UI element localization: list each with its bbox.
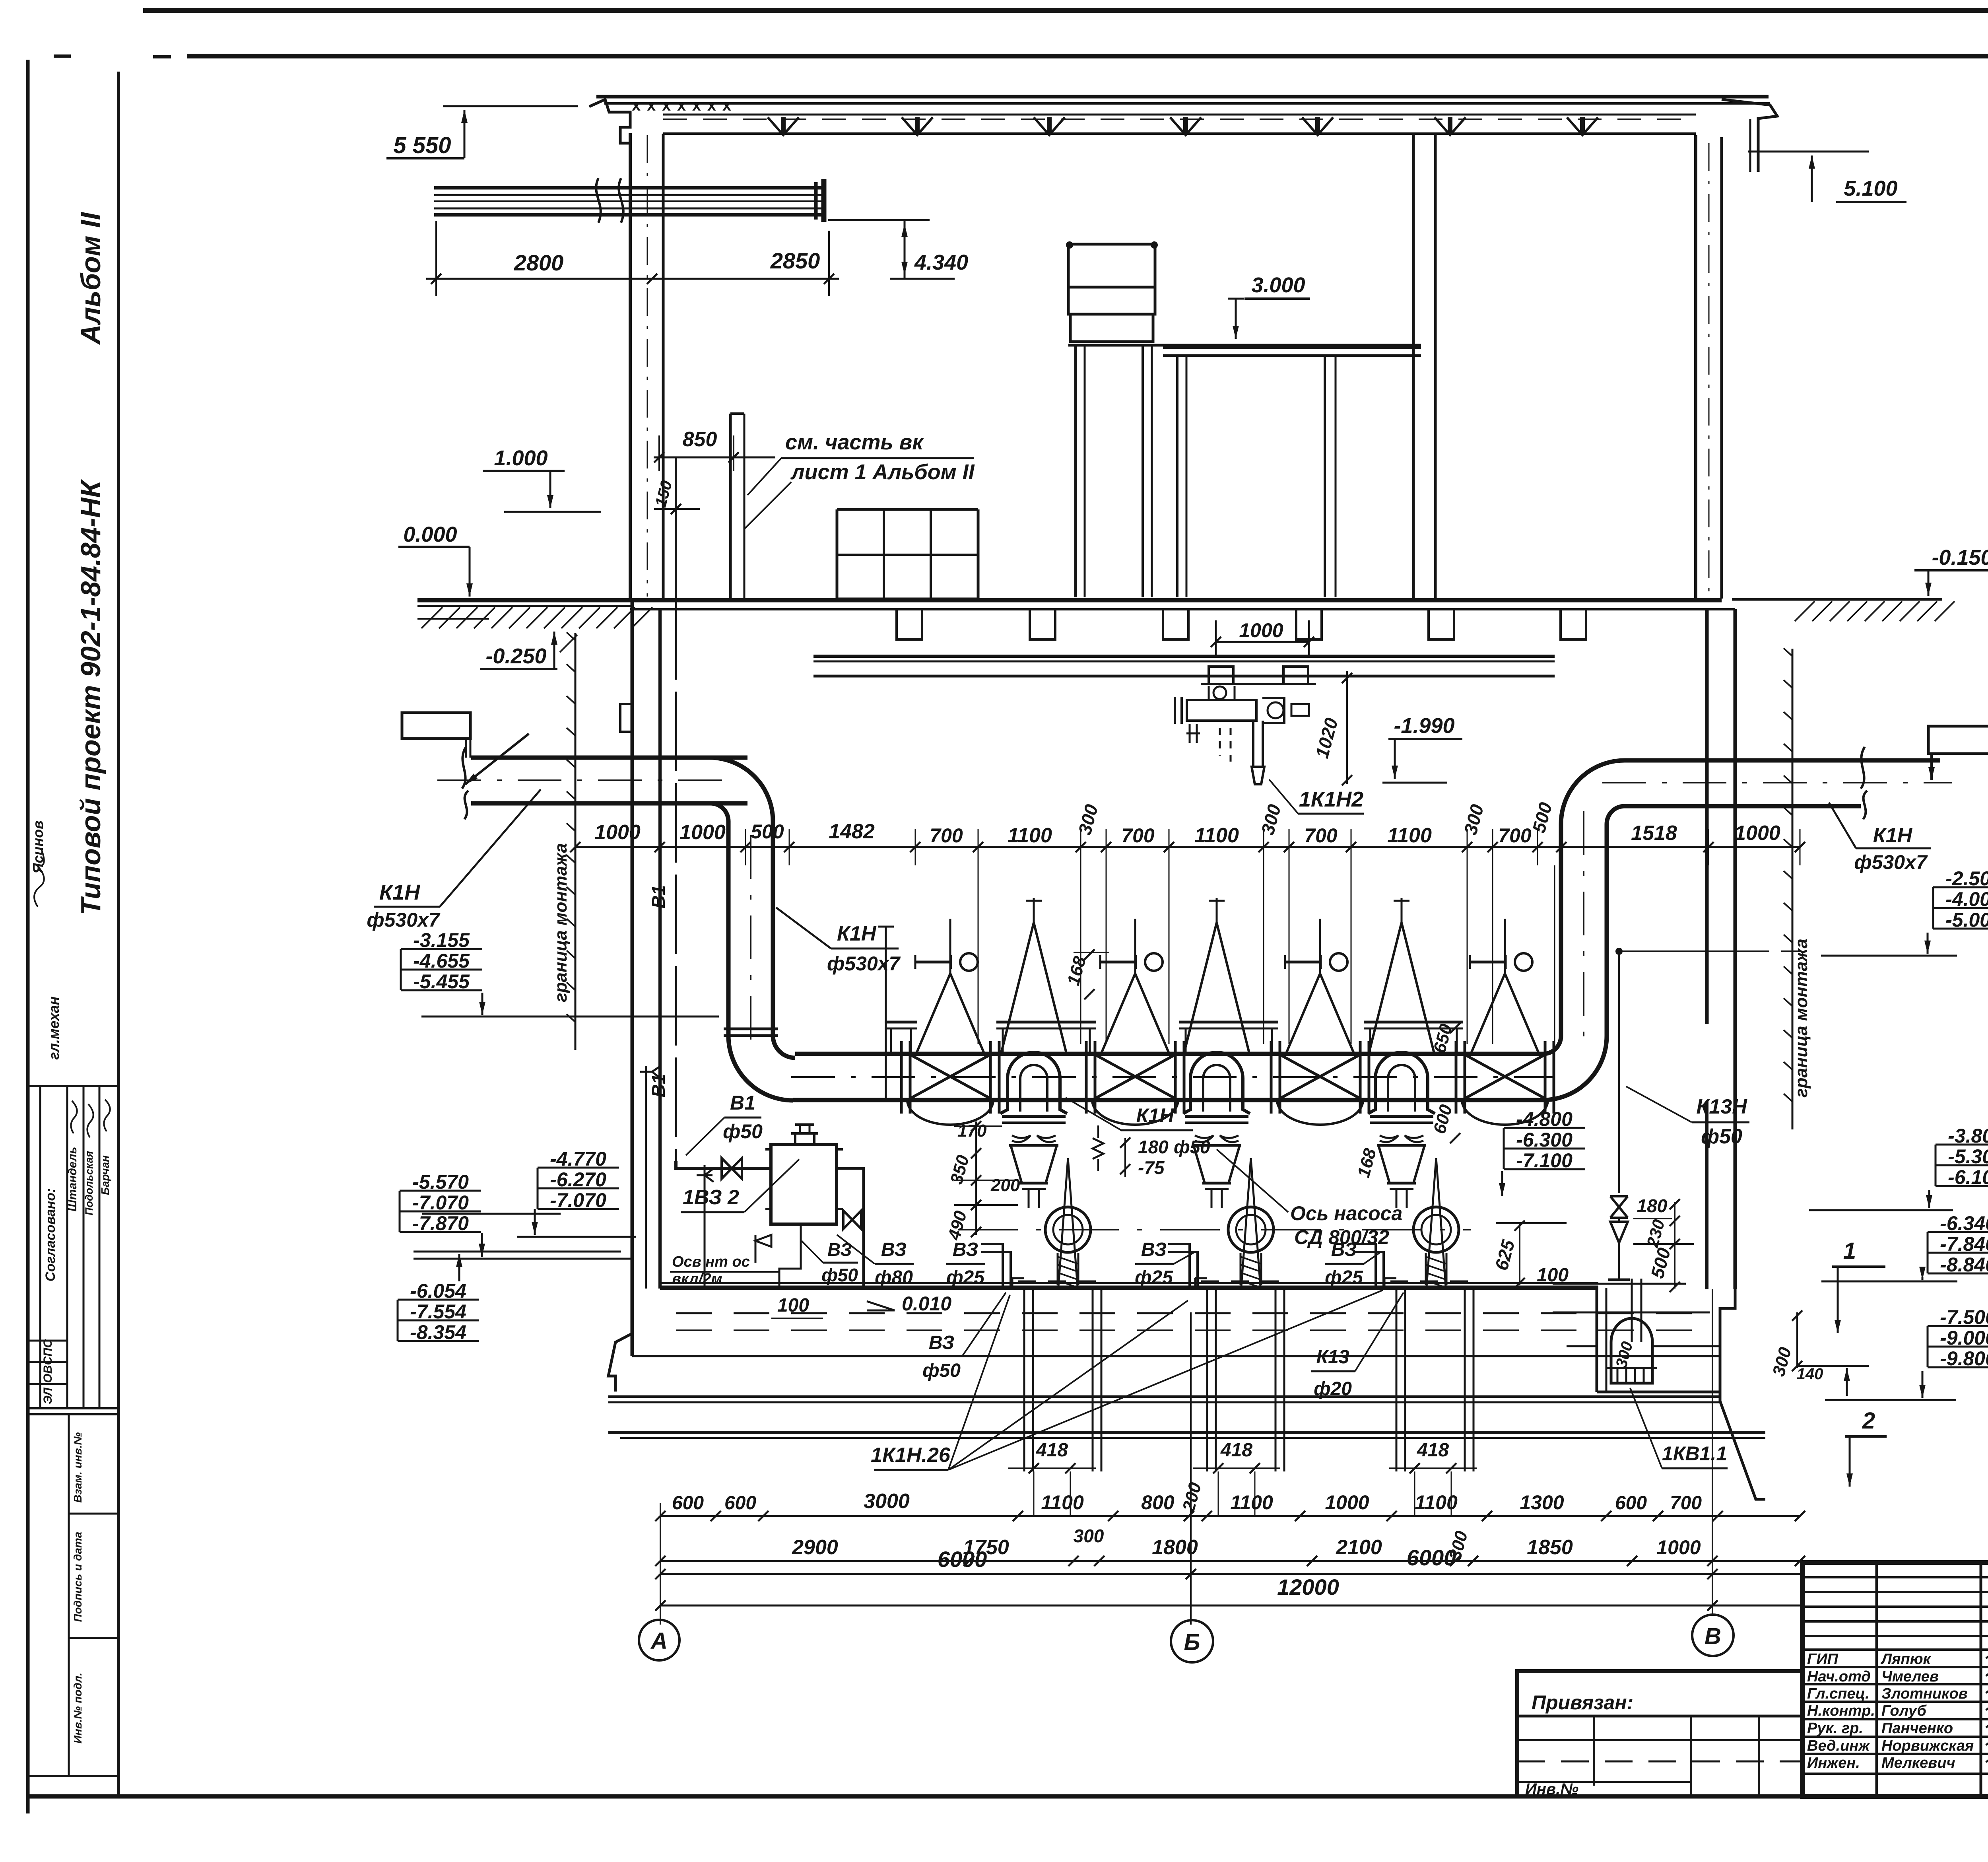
K13N valves <box>1610 1196 1628 1218</box>
svg-text:ф50: ф50 <box>1701 1125 1742 1148</box>
svg-text:1100: 1100 <box>1230 1491 1273 1514</box>
svg-text:300: 300 <box>1769 1345 1795 1378</box>
svg-text:СПС: СПС <box>41 1339 54 1365</box>
svg-text:граница монтажа: граница монтажа <box>1792 939 1811 1098</box>
svg-text:300: 300 <box>1257 802 1285 837</box>
svg-text:600: 600 <box>672 1493 704 1514</box>
svg-text:490: 490 <box>944 1209 971 1242</box>
axis circle A <box>639 1620 679 1660</box>
svg-text:1000: 1000 <box>679 821 726 844</box>
pump motor circle 1 (SD 800/32) <box>1045 1207 1091 1252</box>
tank right wall <box>1705 609 1709 1024</box>
svg-text:-0.250: -0.250 <box>485 644 546 668</box>
bottom slab top line <box>632 1355 1720 1357</box>
svg-text:Инжен.: Инжен. <box>1807 1755 1860 1771</box>
svg-text:150: 150 <box>652 479 676 509</box>
svg-text:300: 300 <box>1074 802 1102 837</box>
svg-text:Чмелев: Чмелев <box>1881 1668 1939 1685</box>
frame bottom border <box>28 1794 1988 1799</box>
pipe K13N top tick <box>1615 948 1623 955</box>
sidebar double divider <box>28 1407 118 1409</box>
svg-text:1К1Н.26: 1К1Н.26 <box>871 1444 951 1467</box>
svg-text:5.100: 5.100 <box>1844 177 1897 200</box>
svg-text:ф25: ф25 <box>1135 1267 1173 1288</box>
frame left border <box>26 60 30 1813</box>
tank left wall footing <box>608 1333 632 1392</box>
svg-text:6000: 6000 <box>1407 1545 1456 1570</box>
svg-text:Инв.№ подл.: Инв.№ подл. <box>72 1673 84 1743</box>
svg-text:1100: 1100 <box>1008 824 1052 847</box>
svg-text:Осв нт ос: Осв нт ос <box>672 1254 750 1270</box>
roof bottom chord <box>663 132 1696 135</box>
svg-text:ВЗ: ВЗ <box>881 1239 907 1260</box>
svg-text:Панченко: Панченко <box>1881 1720 1953 1737</box>
svg-text:2: 2 <box>1862 1408 1875 1434</box>
svg-text:x: x <box>662 97 671 114</box>
svg-text:2100: 2100 <box>1336 1536 1382 1559</box>
platform legs <box>1176 356 1178 597</box>
svg-text:Взам. инв.№: Взам. инв.№ <box>72 1432 84 1502</box>
dimension chain row 2 <box>660 1560 1800 1562</box>
crane beam I-section <box>434 186 823 190</box>
svg-text:ГИП: ГИП <box>1807 1651 1839 1668</box>
left wall sleeve block <box>402 713 470 739</box>
level sensor post <box>885 927 887 1100</box>
svg-text:600: 600 <box>1615 1493 1647 1514</box>
pipe K1H right cut break <box>1861 747 1867 819</box>
svg-text:1020: 1020 <box>1311 715 1342 760</box>
title block signature scribbles <box>1986 1655 1988 1663</box>
right wall axis dash <box>1708 143 1710 597</box>
svg-text:-75: -75 <box>1138 1157 1165 1178</box>
svg-text:Гл.спец.: Гл.спец. <box>1807 1685 1870 1702</box>
svg-text:2850: 2850 <box>770 248 820 273</box>
hoist hanging pipe <box>1252 721 1254 767</box>
svg-text:418: 418 <box>1417 1440 1449 1461</box>
svg-text:1300: 1300 <box>1520 1491 1564 1514</box>
sump pump GNOM body <box>1611 1318 1652 1383</box>
svg-text:3000: 3000 <box>864 1490 910 1513</box>
small cock symbol <box>697 1168 714 1182</box>
svg-text:4.340: 4.340 <box>914 251 968 274</box>
svg-text:Согласовано:: Согласовано: <box>43 1188 58 1282</box>
sidebar signatures table top line <box>28 1085 118 1087</box>
pipe K1H outlet right horizontal <box>1625 758 1940 763</box>
svg-text:100: 100 <box>1537 1265 1569 1286</box>
pump axis dash-dot line <box>958 1229 1471 1230</box>
svg-text:800: 800 <box>1141 1491 1175 1514</box>
roof cornice right <box>1722 99 1777 172</box>
frame top border <box>54 54 71 58</box>
pipe K1H left riser <box>726 851 731 1036</box>
svg-text:Привязан:: Привязан: <box>1532 1691 1633 1714</box>
sidebar signatures table columns <box>39 1086 41 1408</box>
svg-text:x: x <box>707 97 716 114</box>
svg-text:1100: 1100 <box>1387 824 1432 847</box>
floor slab bottom line <box>630 608 1735 610</box>
svg-text:418: 418 <box>1220 1440 1252 1461</box>
ground line right <box>1732 598 1942 601</box>
svg-text:К1Н: К1Н <box>1136 1104 1175 1127</box>
svg-text:Злотников: Злотников <box>1881 1685 1968 1702</box>
svg-text:вкл/2м: вкл/2м <box>672 1271 722 1287</box>
svg-text:ф80: ф80 <box>875 1267 913 1288</box>
svg-text:625: 625 <box>1491 1237 1518 1273</box>
svg-text:А: А <box>650 1628 668 1654</box>
svg-text:1КВ1.1: 1КВ1.1 <box>1662 1442 1727 1465</box>
svg-text:ф50: ф50 <box>922 1360 961 1381</box>
svg-text:600: 600 <box>724 1493 756 1514</box>
svg-text:x: x <box>647 97 656 114</box>
svg-text:1К1Н2: 1К1Н2 <box>1299 787 1363 811</box>
svg-text:200: 200 <box>990 1176 1020 1195</box>
svg-text:1000: 1000 <box>1325 1491 1369 1514</box>
roof ribs <box>768 117 799 134</box>
suction manifold pipe <box>795 1052 1543 1056</box>
svg-text:ф20: ф20 <box>1314 1378 1352 1399</box>
svg-text:x: x <box>632 97 641 114</box>
sump pit bottom <box>1597 1391 1720 1394</box>
svg-text:2900: 2900 <box>792 1536 838 1559</box>
svg-text:В1: В1 <box>648 885 669 909</box>
svg-text:600: 600 <box>1430 1102 1456 1136</box>
pump foundation walls 1 <box>1023 1290 1025 1471</box>
left wall axis dash <box>647 135 648 597</box>
small flag symbol <box>755 1235 771 1263</box>
floor screed dashed line <box>676 1312 1706 1314</box>
montage boundary right <box>1792 649 1794 1129</box>
svg-text:x: x <box>677 97 686 114</box>
valve on outlet <box>843 1211 861 1229</box>
pipe K1H left riser flange <box>724 1028 778 1030</box>
pipe K1H left arrow flow <box>465 734 529 784</box>
dimension chain row 1 <box>660 1515 1800 1517</box>
sidebar signature scribbles <box>71 1101 77 1133</box>
svg-text:В1: В1 <box>730 1092 755 1114</box>
svg-text:200: 200 <box>1179 1480 1206 1514</box>
axis column B line <box>1190 1312 1192 1625</box>
stacked tanks left <box>1068 244 1155 287</box>
svg-text:1000: 1000 <box>1656 1536 1701 1559</box>
drain pipes extension lines <box>1033 1471 1035 1516</box>
svg-text:180: 180 <box>1138 1137 1169 1157</box>
dimension line main row <box>575 846 1800 848</box>
svg-text:0.010: 0.010 <box>902 1293 951 1315</box>
svg-text:x: x <box>722 97 731 114</box>
svg-text:1000: 1000 <box>1734 822 1780 845</box>
svg-text:Подольская: Подольская <box>83 1151 95 1215</box>
svg-text:ЭЛ: ЭЛ <box>41 1387 54 1404</box>
svg-text:1850: 1850 <box>1527 1536 1573 1559</box>
svg-text:К1Н: К1Н <box>1873 824 1913 847</box>
pump drop funnel 1 <box>1002 1115 1066 1118</box>
svg-text:12000: 12000 <box>1277 1574 1339 1600</box>
sidebar right border <box>117 72 120 1796</box>
hoist chain dashes <box>1230 728 1232 762</box>
pit level arrow up <box>1846 1368 1848 1396</box>
note leader lines <box>747 458 781 495</box>
pipe K1H right riser dash axis <box>1583 811 1584 1050</box>
tank right wall lower <box>1705 1102 1708 1289</box>
sidebar lower cells <box>68 1414 70 1776</box>
tank 1V32 lugs <box>765 1148 771 1151</box>
svg-text:180: 180 <box>1637 1195 1668 1216</box>
dimension 625 <box>1519 1223 1520 1285</box>
service rail bars above manifold <box>885 1021 917 1024</box>
tank left wall corbel <box>620 704 632 732</box>
svg-text:3.000: 3.000 <box>1251 273 1305 297</box>
svg-text:Вед.инж: Вед.инж <box>1807 1738 1870 1754</box>
svg-text:ф50: ф50 <box>723 1120 763 1143</box>
svg-text:ф50: ф50 <box>1174 1137 1210 1157</box>
svg-text:1100: 1100 <box>1194 824 1239 847</box>
tank left wall <box>631 600 634 1356</box>
svg-text:Б: Б <box>1184 1629 1200 1655</box>
dimension chain row 4 (12000) <box>660 1605 1800 1607</box>
hoist small parts <box>1186 724 1200 743</box>
svg-text:ОВ: ОВ <box>41 1365 54 1383</box>
tank outlet pipe right <box>837 1168 864 1289</box>
pipe B1 elbow to tank <box>676 1161 771 1168</box>
level line left lower <box>422 1213 561 1215</box>
svg-text:-0.150: -0.150 <box>1932 546 1988 569</box>
svg-text:1518: 1518 <box>1631 822 1677 845</box>
svg-text:К1Н: К1Н <box>379 880 420 904</box>
svg-text:Альбом II: Альбом II <box>75 212 106 345</box>
svg-text:ф530х7: ф530х7 <box>1854 851 1928 873</box>
svg-text:Барчан: Барчан <box>99 1155 111 1195</box>
hoisted valve 1K1H2 assembly <box>1187 700 1256 721</box>
V3 f25 drain pipes <box>981 1244 1003 1290</box>
pipe K1H left down elbow <box>709 758 773 851</box>
svg-text:1000: 1000 <box>594 821 641 844</box>
crane beam break symbol <box>596 178 601 223</box>
axis column V line <box>1712 1289 1713 1615</box>
roof panel lines <box>663 114 1696 116</box>
svg-text:К1Н: К1Н <box>837 922 877 945</box>
dimension chain row 3 (6000) <box>660 1573 1800 1575</box>
title block staff rows <box>1802 1648 1988 1651</box>
sump guide line <box>1553 1312 1710 1314</box>
svg-text:Рук. гр.: Рук. гр. <box>1807 1720 1863 1737</box>
svg-text:418: 418 <box>1036 1440 1068 1461</box>
svg-text:Штандель: Штандель <box>66 1147 79 1212</box>
tank drain small pipe <box>779 1224 801 1289</box>
svg-text:ф530х7: ф530х7 <box>367 909 440 931</box>
pump hall floor line <box>660 1286 1598 1290</box>
svg-text:300: 300 <box>1613 1340 1637 1370</box>
axis circle V <box>1692 1615 1734 1656</box>
svg-text:700: 700 <box>1121 824 1155 847</box>
svg-text:Голуб: Голуб <box>1881 1703 1927 1719</box>
privyazan grid <box>1517 1715 1802 1718</box>
slab downstand ribs <box>897 609 922 639</box>
svg-text:граница монтажа: граница монтажа <box>551 843 571 1002</box>
svg-text:Типовой проект 902-1-84.84-НК: Типовой проект 902-1-84.84-НК <box>75 479 106 915</box>
svg-text:Подпись и дата: Подпись и дата <box>72 1532 84 1622</box>
sidebar rows SPS/OV/EL <box>28 1340 67 1342</box>
tank 1V32 cap <box>791 1133 818 1145</box>
svg-text:ф25: ф25 <box>1325 1267 1363 1288</box>
svg-text:1000: 1000 <box>1239 619 1283 641</box>
svg-text:Ось насоса: Ось насоса <box>1290 1202 1402 1224</box>
svg-text:ф25: ф25 <box>946 1267 985 1288</box>
svg-text:700: 700 <box>1670 1493 1702 1514</box>
interior VK pipe <box>729 414 732 599</box>
pipe K1H right riser top elbow <box>1561 760 1625 824</box>
right wall sleeve block <box>1928 726 1988 754</box>
montage boundary left <box>575 633 577 1050</box>
svg-text:К13: К13 <box>1316 1347 1349 1368</box>
svg-text:ВЗ: ВЗ <box>953 1239 978 1260</box>
ground floor slab line <box>417 598 1722 603</box>
svg-text:В: В <box>1705 1623 1721 1649</box>
svg-text:850: 850 <box>683 428 717 451</box>
svg-text:1100: 1100 <box>1041 1491 1084 1514</box>
svg-text:168: 168 <box>1354 1146 1380 1180</box>
svg-text:300: 300 <box>1460 802 1487 837</box>
svg-text:1100: 1100 <box>1415 1491 1458 1514</box>
sump pit inner lines <box>1567 1345 1597 1347</box>
svg-text:700: 700 <box>1498 824 1532 847</box>
pipe K1H inlet left cut break <box>462 747 468 819</box>
roof cornice left <box>589 99 630 167</box>
svg-text:-1.990: -1.990 <box>1394 714 1454 738</box>
svg-text:700: 700 <box>930 824 963 847</box>
axis column A line <box>660 1503 661 1625</box>
svg-text:ВЗ: ВЗ <box>929 1332 954 1353</box>
svg-text:230: 230 <box>1643 1217 1668 1250</box>
pipe B1 riser <box>675 600 677 1161</box>
svg-text:700: 700 <box>1304 824 1338 847</box>
pipe K1H left bottom elbow <box>728 1036 795 1100</box>
title block outer frame <box>1802 1563 1988 1796</box>
privyazan box frame <box>1517 1671 1802 1796</box>
valve on B1 <box>722 1158 742 1179</box>
axis circle B <box>1171 1620 1213 1662</box>
pipe K1H right bottom elbow <box>1543 824 1607 1100</box>
svg-text:650: 650 <box>1430 1022 1456 1055</box>
svg-text:1: 1 <box>1843 1238 1856 1264</box>
slope mark 0.010 <box>867 1301 895 1310</box>
svg-text:Н.контр.: Н.контр. <box>1807 1703 1875 1719</box>
pump suction branch loop 1 <box>1000 1052 1067 1114</box>
pipe K1H inlet left horizontal <box>471 756 747 760</box>
tank legs <box>1074 345 1077 597</box>
left wall above ground <box>629 133 632 599</box>
sump pump discharge pipe <box>1631 1279 1633 1342</box>
svg-text:ф50: ф50 <box>821 1265 858 1285</box>
svg-text:К13Н: К13Н <box>1696 1095 1747 1118</box>
sump pit left wall <box>1596 1288 1598 1392</box>
title block vertical dividers <box>1875 1563 1878 1796</box>
B1 pipe above floor <box>675 458 677 600</box>
svg-text:1482: 1482 <box>829 820 875 843</box>
svg-text:см. часть вк: см. часть вк <box>785 430 924 454</box>
svg-text:0.000: 0.000 <box>403 523 457 546</box>
svg-text:Инв.№: Инв.№ <box>1525 1780 1578 1798</box>
left small stand pipe <box>704 1165 706 1289</box>
svg-text:Нач.отд: Нач.отд <box>1807 1668 1871 1685</box>
right wall above ground <box>1694 135 1697 599</box>
svg-text:2800: 2800 <box>514 250 564 275</box>
svg-text:В1: В1 <box>648 1074 669 1098</box>
pipe K13N f50 vertical <box>1618 951 1620 1193</box>
svg-text:гл.механ: гл.механ <box>46 996 62 1059</box>
svg-text:5 550: 5 550 <box>393 132 451 158</box>
monorail under slab <box>813 655 1555 658</box>
svg-text:300: 300 <box>1074 1526 1104 1546</box>
svg-text:140: 140 <box>1797 1365 1823 1383</box>
svg-text:1ВЗ 2: 1ВЗ 2 <box>683 1186 739 1209</box>
platform at 3.000 <box>1068 344 1421 347</box>
svg-text:1.000: 1.000 <box>494 446 547 470</box>
expansion joint symbol <box>1093 1138 1103 1159</box>
svg-text:Ляпюк: Ляпюк <box>1880 1651 1932 1668</box>
dimension extension verticals to manifold <box>978 865 979 1044</box>
svg-text:100: 100 <box>777 1295 809 1316</box>
svg-text:1800: 1800 <box>1152 1536 1198 1559</box>
bottom slab lines <box>608 1396 1720 1398</box>
manifold gate valve body 1 <box>907 1053 993 1100</box>
tank right wall footing incline <box>1720 1289 1765 1499</box>
svg-text:350: 350 <box>947 1153 973 1186</box>
svg-text:500: 500 <box>1646 1246 1674 1281</box>
svg-text:500: 500 <box>751 820 784 843</box>
svg-text:ВЗ: ВЗ <box>1141 1239 1167 1260</box>
hoist trolley <box>1209 667 1233 684</box>
svg-text:ф530х7: ф530х7 <box>827 952 901 975</box>
roof slab top chords <box>596 95 1769 99</box>
svg-text:6000: 6000 <box>938 1547 987 1572</box>
K13N flange at floor <box>1608 1279 1630 1281</box>
sheet top edge line <box>143 8 1988 13</box>
crane beam end plate <box>814 182 818 220</box>
svg-text:ВЗ: ВЗ <box>1331 1239 1357 1260</box>
svg-text:ВЗ: ВЗ <box>827 1239 852 1260</box>
hose bib left wall <box>640 1066 661 1079</box>
title block upper thin rows <box>1802 1576 1988 1578</box>
svg-text:Мелкевич: Мелкевич <box>1881 1755 1955 1771</box>
svg-text:Норвижская: Норвижская <box>1881 1738 1974 1754</box>
svg-text:500: 500 <box>1528 800 1556 835</box>
svg-text:лист 1 Альбом II: лист 1 Альбом II <box>790 460 975 484</box>
svg-text:x: x <box>692 97 701 114</box>
window grid wall <box>837 508 978 511</box>
middle wall <box>1412 134 1415 599</box>
tank 1V32 body <box>771 1145 837 1224</box>
ground hatch left <box>417 605 632 607</box>
